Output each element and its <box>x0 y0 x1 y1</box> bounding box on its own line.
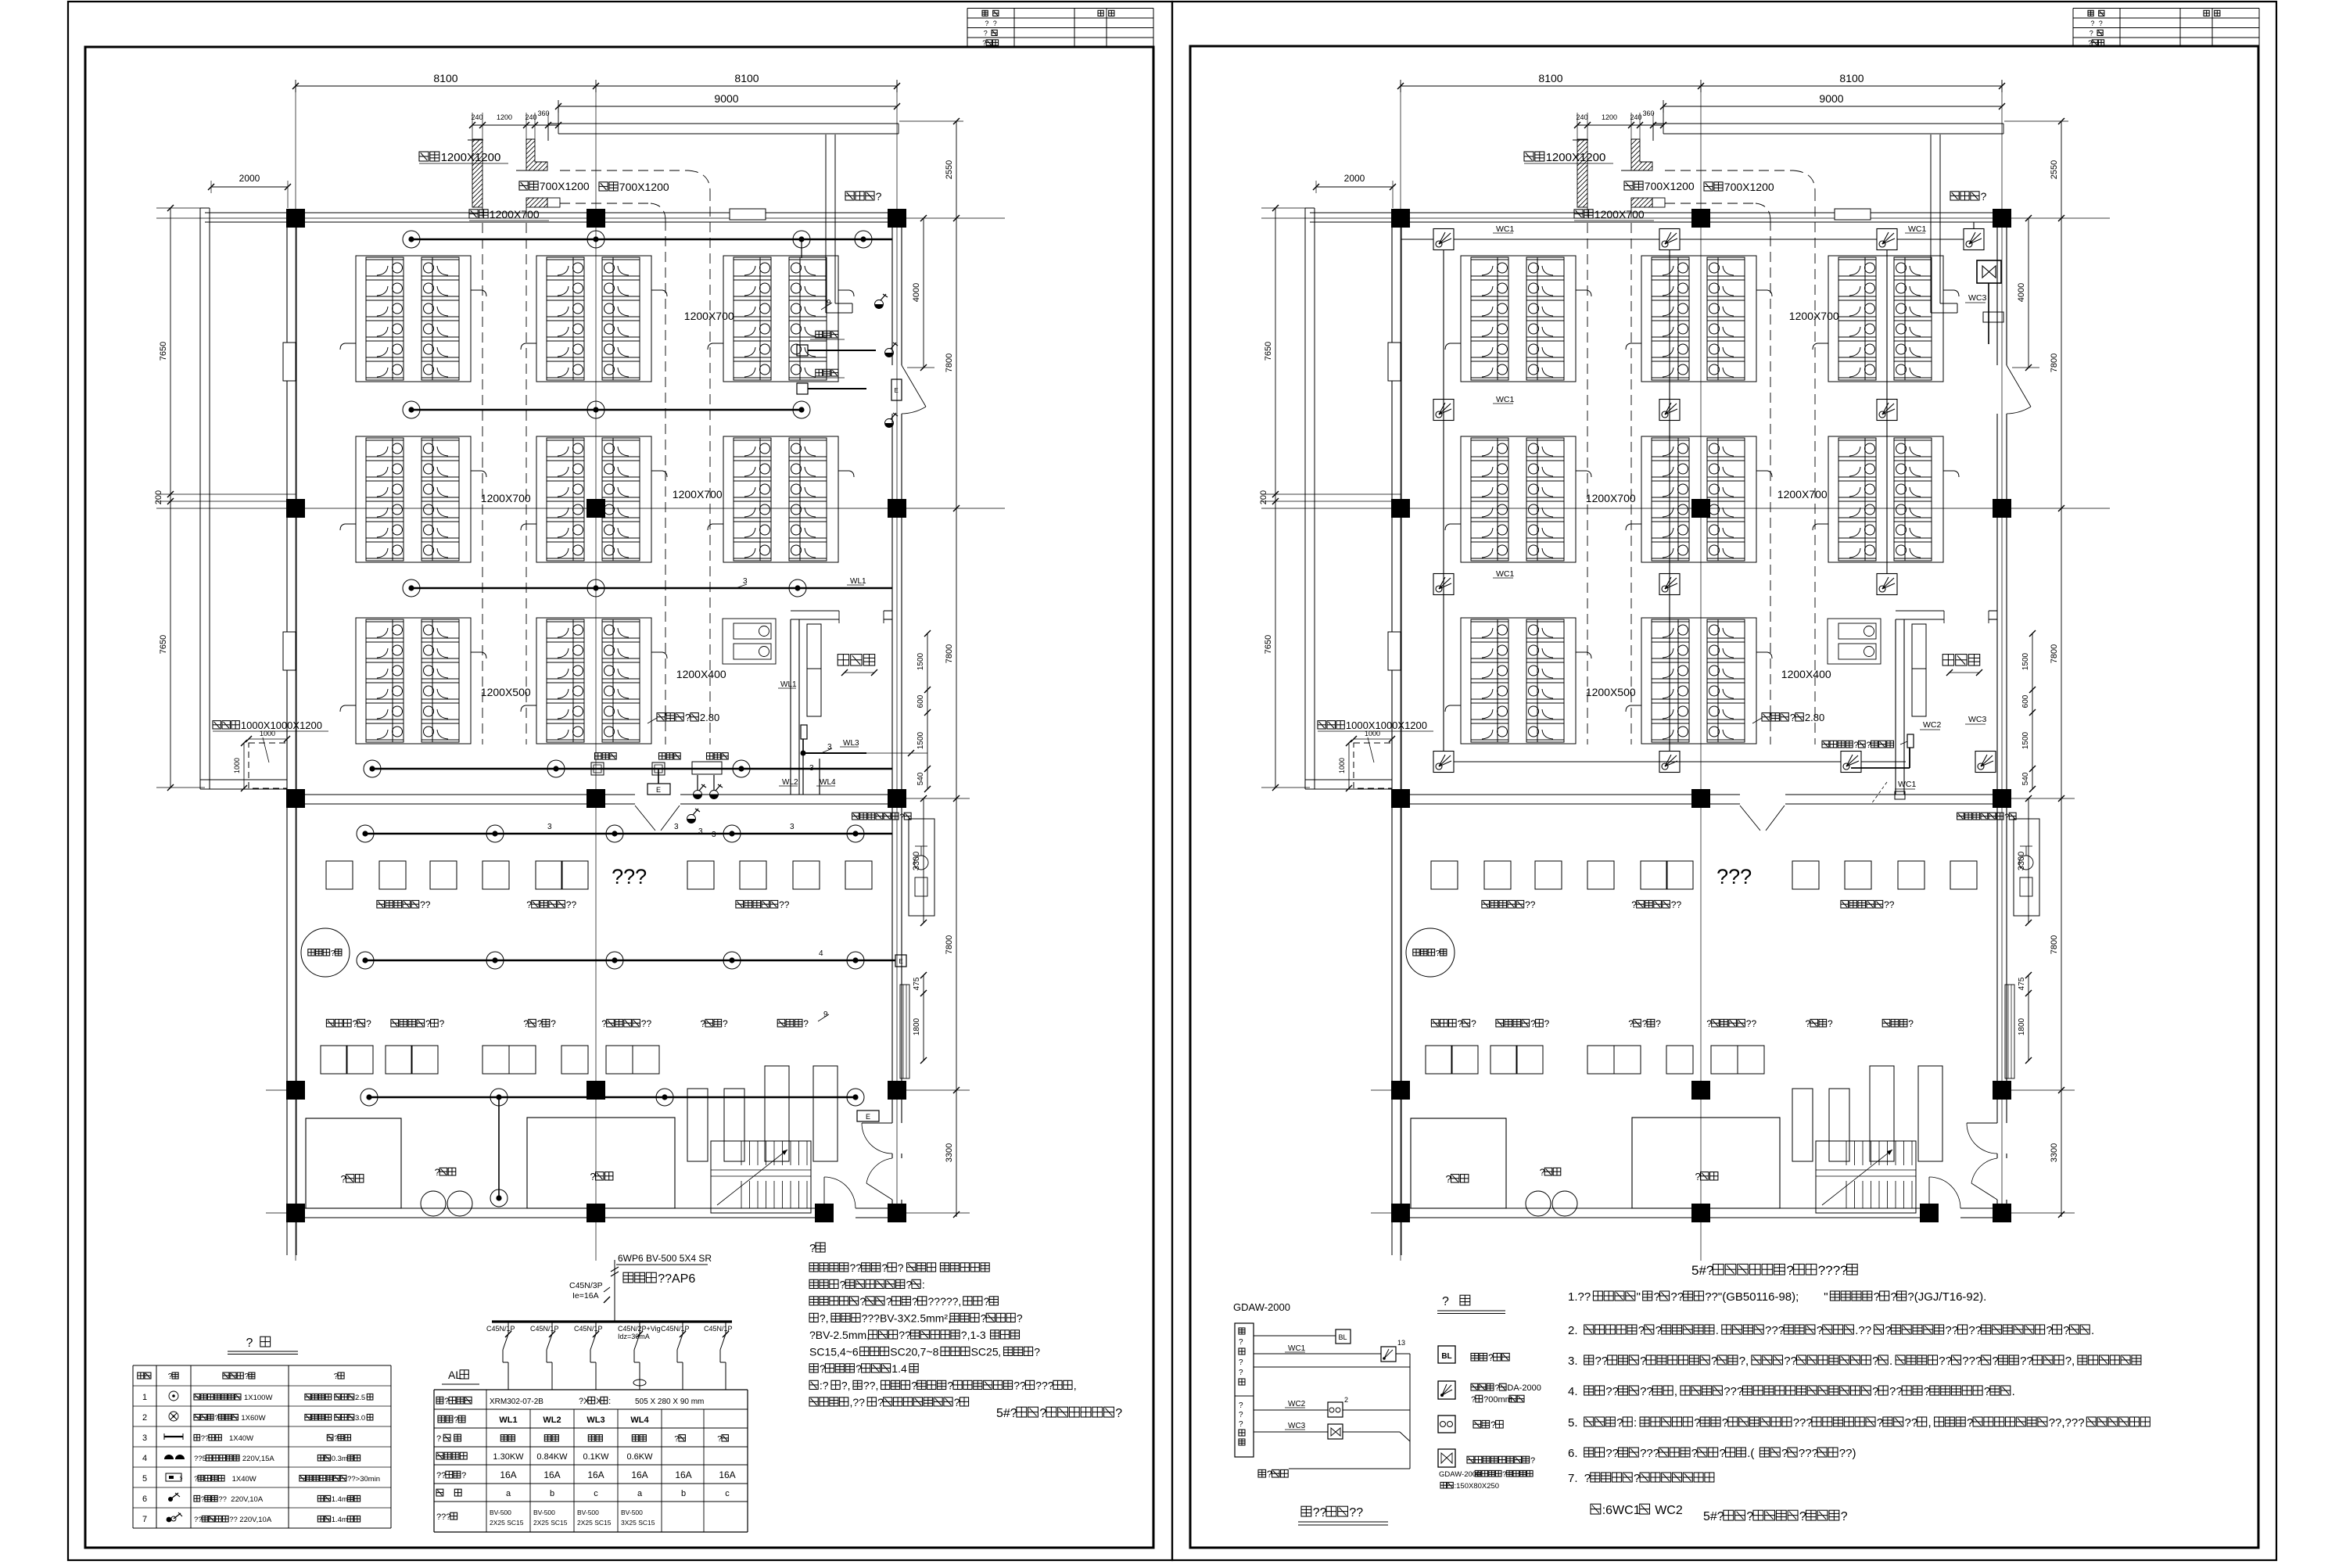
svg-text:?: ? <box>1628 1018 1634 1029</box>
svg-text:540: 540 <box>2021 772 2030 785</box>
svg-text:2X25 SC15: 2X25 SC15 <box>577 1519 612 1527</box>
svg-text:C45N/2P+Vig: C45N/2P+Vig <box>618 1325 661 1333</box>
left sheet inner border <box>85 47 1153 1548</box>
junction box row D <box>591 762 604 775</box>
svg-text:505 X 280 X 90 mm: 505 X 280 X 90 mm <box>635 1398 704 1406</box>
svg-text:3: 3 <box>674 823 679 831</box>
svg-text:??: ?? <box>1349 1506 1363 1520</box>
svg-text:WL4: WL4 <box>630 1416 649 1425</box>
gas shutoff valve box <box>1977 260 2001 283</box>
AL table <box>434 1389 748 1390</box>
svg-text:WC2: WC2 <box>1288 1400 1306 1408</box>
bottom wall <box>287 1207 824 1209</box>
label 隔爆盒 3 <box>707 753 713 759</box>
svg-text:SC15,4~6: SC15,4~6 <box>809 1346 859 1358</box>
svg-text:2.5: 2.5 <box>355 1394 365 1402</box>
east wall upper <box>1996 222 1998 365</box>
svg-text:240: 240 <box>471 113 482 121</box>
svg-text:,: , <box>1674 1385 1677 1398</box>
gas detector WC box <box>1433 574 1454 595</box>
west lean-to wall <box>199 208 201 789</box>
svg-text:?: ? <box>1634 1472 1640 1485</box>
svg-text:1X60W: 1X60W <box>241 1414 265 1423</box>
AL outgoing line <box>802 739 804 753</box>
light row F <box>606 952 623 969</box>
dashed flue main 2 <box>1665 203 1756 204</box>
svg-text:WC1: WC1 <box>1288 1344 1306 1353</box>
svg-text:1.4m: 1.4m <box>332 1516 348 1524</box>
svg-text:WL3: WL3 <box>843 739 859 748</box>
flue connector stubs <box>471 652 486 658</box>
svg-text:??: ?? <box>1013 1380 1026 1392</box>
stair arrow <box>1822 1150 1892 1205</box>
svg-text:?: ? <box>1872 1385 1878 1398</box>
svg-text:": " <box>1824 1290 1828 1304</box>
column <box>1993 789 2011 808</box>
light row D <box>364 760 381 777</box>
svg-text:0.84KW: 0.84KW <box>536 1452 568 1462</box>
svg-text:1200X700: 1200X700 <box>1594 208 1645 221</box>
svg-text:??: ?? <box>1905 1416 1918 1430</box>
svg-text:??AP6: ??AP6 <box>658 1272 695 1286</box>
right outer dim chain <box>956 121 957 1217</box>
svg-text:2000: 2000 <box>239 173 260 184</box>
svg-text:???BV-3X2.5mm²,: ???BV-3X2.5mm², <box>862 1312 951 1325</box>
flue connector stubs <box>1943 471 1959 477</box>
E box east wall <box>891 379 902 400</box>
softener circles <box>1526 1191 1551 1216</box>
svg-text:?: ? <box>341 1173 346 1185</box>
label 采暖二次水除?器 <box>852 813 859 820</box>
boiler group (burner battery) at 925,558 <box>1813 436 1959 562</box>
svg-text:1000X1000X1200: 1000X1000X1200 <box>241 719 322 731</box>
light row G <box>847 1089 864 1106</box>
svg-text:??: ?? <box>1889 1385 1903 1398</box>
column <box>1391 1081 1410 1100</box>
dashed flue vertical 3 <box>1587 207 1588 745</box>
svg-text:4: 4 <box>142 1454 147 1463</box>
light circuit row F wire <box>365 960 895 961</box>
boiler group (burner battery) at 455,327 <box>340 256 486 382</box>
svg-text:WL1: WL1 <box>850 577 866 586</box>
svg-text:?: ? <box>1530 1018 1536 1029</box>
svg-text:??: ?? <box>641 1018 652 1029</box>
svg-text:XRM302-07-2B: XRM302-07-2B <box>490 1398 543 1406</box>
svg-text:E: E <box>866 1113 870 1121</box>
title block texts <box>982 10 988 16</box>
svg-text:4000: 4000 <box>2017 283 2026 302</box>
svg-text:?: ? <box>1992 1355 1998 1368</box>
svg-text:?: ? <box>1442 1295 1449 1308</box>
column <box>586 209 605 228</box>
grid axis row 4 stub <box>902 1089 970 1091</box>
pump row1 label 3 <box>1841 900 1849 908</box>
column <box>1691 499 1710 518</box>
junction box row D 2 <box>652 762 665 775</box>
flue connector stubs <box>838 471 854 477</box>
svg-text:1200X500: 1200X500 <box>1586 686 1636 698</box>
svg-text:1500: 1500 <box>917 731 925 749</box>
row D wire <box>1454 761 1841 762</box>
svg-text:475: 475 <box>2018 977 2026 990</box>
svg-text:16A: 16A <box>587 1469 604 1480</box>
svg-text:???: ??? <box>1035 1380 1054 1392</box>
light at softener <box>490 1189 508 1207</box>
svg-text:?: ? <box>1841 1510 1848 1523</box>
svg-text:?: ? <box>1967 1416 1973 1430</box>
svg-text:?: ? <box>1488 1352 1494 1363</box>
svg-text:2: 2 <box>142 1413 147 1423</box>
left dim chain 7650/200/7650 <box>1275 208 1276 788</box>
AL bus bar <box>492 1320 732 1322</box>
svg-text:360: 360 <box>537 109 549 117</box>
svg-text:?: ? <box>1867 741 1871 750</box>
boiler group (burner battery) at 925,558 <box>708 436 854 562</box>
svg-text:1800: 1800 <box>913 1017 921 1035</box>
svg-text:?: ? <box>1530 1456 1535 1466</box>
notes line 9 <box>809 1398 818 1406</box>
svg-text:?: ? <box>982 39 986 47</box>
svg-text:??: ?? <box>1945 1324 1958 1337</box>
svg-text:200: 200 <box>154 490 163 504</box>
svg-text:1000: 1000 <box>1338 758 1346 773</box>
column <box>1920 1204 1939 1222</box>
right inner dim chain 4000 <box>923 218 924 368</box>
svg-text:1000X1000X1200: 1000X1000X1200 <box>1346 719 1427 731</box>
svg-text:?: ? <box>590 1171 596 1182</box>
svg-text:?: ? <box>723 1018 728 1029</box>
svg-text:?: ? <box>1885 1324 1891 1337</box>
E box bottom door <box>857 1111 879 1121</box>
column <box>1691 1204 1710 1222</box>
svg-text:1.4: 1.4 <box>891 1362 907 1375</box>
svg-text:3: 3 <box>698 827 703 836</box>
svg-text:?: ? <box>856 1362 862 1375</box>
svg-text:220V,10A: 220V,10A <box>239 1516 272 1524</box>
svg-text:.(: .( <box>1747 1447 1754 1460</box>
column <box>1391 209 1410 228</box>
svg-text:2.: 2. <box>1568 1324 1578 1337</box>
svg-text:700X1200: 700X1200 <box>540 180 590 192</box>
svg-text:6WP6 BV-500 5X4 SR: 6WP6 BV-500 5X4 SR <box>618 1253 712 1264</box>
svg-text:7800: 7800 <box>945 353 954 372</box>
svg-text:??5: ??5 <box>194 1455 206 1463</box>
west wall <box>286 213 288 1218</box>
svg-text:?: ? <box>1806 1018 1811 1029</box>
svg-text:??: ?? <box>420 899 431 910</box>
right inner dims 475/1800 <box>923 975 924 1060</box>
sump pit 集水坑 <box>1354 743 1392 788</box>
lamp drops <box>697 775 698 791</box>
svg-text:700X1200: 700X1200 <box>619 181 669 193</box>
radiator east wall <box>900 985 909 1078</box>
gas detector WC box <box>1841 752 1861 773</box>
gas detector WC box <box>1964 229 1984 250</box>
column <box>1691 1081 1710 1100</box>
dashed flue main 1 <box>1665 170 1793 171</box>
svg-text:.: . <box>2012 1385 2015 1398</box>
AL table row4 <box>436 1452 443 1459</box>
svg-text:??: ?? <box>1605 1385 1619 1398</box>
svg-text:SC25: SC25 <box>971 1346 999 1358</box>
svg-text:2.80: 2.80 <box>1805 712 1824 723</box>
label 烟道1200X1200 <box>419 152 429 161</box>
control box feed <box>1909 748 1910 768</box>
left dim chain 7650/200/7650 <box>170 208 171 788</box>
east wall lower piers <box>891 1098 893 1123</box>
svg-text:600: 600 <box>2021 694 2030 708</box>
svg-text:WC1: WC1 <box>1496 224 1514 234</box>
svg-text:?: ? <box>1239 1420 1243 1429</box>
pump row1 label 3 <box>736 900 744 908</box>
svg-text:1X40W: 1X40W <box>232 1475 256 1484</box>
svg-text:5#?: 5#? <box>996 1407 1017 1420</box>
boiler group (burner battery) at 686,327 <box>521 256 667 382</box>
svg-text:?: ? <box>1239 1338 1243 1347</box>
gas detector WC box <box>1877 574 1897 595</box>
svg-text:,: , <box>1074 1380 1077 1392</box>
svg-text:?: ? <box>1039 1407 1046 1420</box>
detector column wire C <box>1886 249 1888 574</box>
svg-text:a: a <box>637 1489 643 1498</box>
svg-text:WC1: WC1 <box>1496 569 1514 579</box>
notes line 3 <box>809 1297 818 1305</box>
column <box>1993 499 2011 518</box>
svg-text:7800: 7800 <box>945 935 954 954</box>
svg-text:7650: 7650 <box>159 342 168 361</box>
grid axis row 2 <box>156 508 1005 509</box>
svg-text:,: , <box>998 1346 1001 1358</box>
svg-text:16A: 16A <box>500 1469 516 1480</box>
label 烟道700X1200 <box>1624 181 1633 190</box>
AL node dot <box>801 751 806 756</box>
gas detector WC box <box>1433 229 1454 250</box>
row3 partition wall <box>1392 794 1740 795</box>
top wall <box>1310 212 2007 213</box>
east wall upper <box>891 222 893 365</box>
svg-text:?: ? <box>2090 30 2093 38</box>
label 隔爆盒 1 <box>595 753 601 759</box>
east wall mid <box>1996 414 1998 1098</box>
notes line 1 <box>809 1263 818 1272</box>
svg-text:WL4: WL4 <box>820 778 836 787</box>
svg-text:3.: 3. <box>1568 1355 1578 1368</box>
svg-text:1200X500: 1200X500 <box>481 686 531 698</box>
column <box>286 1204 305 1222</box>
plate heat exchangers <box>687 1089 708 1161</box>
svg-text:8100: 8100 <box>1538 72 1562 84</box>
svg-text:?: ? <box>1239 1401 1243 1410</box>
column <box>888 789 906 808</box>
right sheet outer border <box>1172 2 2276 1560</box>
label 烟道700X1200 <box>519 181 528 190</box>
east door upper <box>902 365 926 407</box>
water tank 2 <box>527 1118 675 1208</box>
svg-text:Idz=30mA: Idz=30mA <box>618 1333 650 1340</box>
svg-text:1200X700: 1200X700 <box>1789 310 1839 322</box>
svg-text:??): ??) <box>1839 1447 1856 1460</box>
column <box>1993 209 2011 228</box>
explosion box east 2 <box>797 383 808 394</box>
svg-text:?: ? <box>1267 1469 1272 1480</box>
svg-text:?: ? <box>906 1279 913 1291</box>
svg-text:1.??: 1.?? <box>1568 1290 1591 1304</box>
svg-text:E: E <box>656 786 661 794</box>
column <box>286 1081 305 1100</box>
svg-text:1X100W: 1X100W <box>244 1394 272 1402</box>
grid axis row 5 stub <box>902 1212 970 1214</box>
svg-text:?,: ?, <box>1739 1355 1749 1368</box>
control room top wall <box>1896 610 1944 612</box>
svg-text:?: ? <box>1691 1447 1698 1460</box>
svg-text:16A: 16A <box>719 1469 735 1480</box>
svg-text:?: ? <box>1891 1290 1897 1304</box>
legend table frame <box>133 1365 391 1366</box>
plate heat exchangers <box>1792 1089 1813 1161</box>
feeder label 引至配??AP6 <box>623 1272 633 1283</box>
svg-text:?: ? <box>717 1434 722 1444</box>
svg-text:WC1: WC1 <box>1908 224 1926 234</box>
svg-text:?: ? <box>1799 1510 1806 1523</box>
boiler group (burner battery) at 686,327 <box>1626 256 1772 382</box>
window on west wall 2 <box>1388 632 1401 670</box>
row3 door leaves <box>635 806 655 831</box>
除污器 strainer unit <box>909 819 934 916</box>
light row G <box>490 1089 508 1106</box>
svg-text:.: . <box>1716 1324 1719 1337</box>
light row D <box>547 760 565 777</box>
svg-text:?: ? <box>194 1475 198 1484</box>
svg-text:?: ? <box>1436 949 1440 958</box>
svg-text:c: c <box>725 1489 730 1498</box>
svg-text:5: 5 <box>142 1474 147 1484</box>
pump row 2 bases <box>321 1046 347 1074</box>
svg-text:700X1200: 700X1200 <box>1724 181 1774 193</box>
svg-text:,: , <box>1928 1416 1932 1430</box>
switch below wall <box>687 819 696 823</box>
grid axis line B (x=762) <box>595 84 597 1261</box>
light circuit row D wire <box>372 768 892 770</box>
svg-text:b: b <box>550 1489 554 1498</box>
svg-text:?: ? <box>981 1312 987 1325</box>
svg-text:??: ?? <box>201 1434 210 1443</box>
flue connector stubs <box>1756 290 1772 296</box>
grid axis row 4 stub <box>2007 1089 2075 1091</box>
svg-text:?: ? <box>1781 1447 1788 1460</box>
dashed leader <box>1871 782 1887 804</box>
light row B <box>403 401 420 418</box>
right outer dim chain <box>2061 121 2062 1217</box>
light row F <box>486 952 504 969</box>
svg-text:???: ??? <box>612 865 647 888</box>
svg-text:2: 2 <box>1344 1396 1348 1404</box>
grid axis row 5 stub <box>2007 1212 2075 1214</box>
svg-text:C45N/3P: C45N/3P <box>569 1281 603 1290</box>
east door upper <box>2007 365 2031 407</box>
svg-text:3: 3 <box>790 823 795 831</box>
grid axis line B (x=762) <box>1700 84 1702 1261</box>
column <box>1691 789 1710 808</box>
svg-text:BV-500: BV-500 <box>577 1509 599 1516</box>
dim 2000 <box>1316 186 1393 188</box>
light circuit row B wire <box>411 409 802 411</box>
svg-text:?: ? <box>439 1018 445 1029</box>
svg-text:?: ? <box>993 20 997 27</box>
dashed flue vertical 1 <box>1814 191 1816 745</box>
label 烟道底?高2.80 <box>1762 713 1770 721</box>
light row A <box>403 231 420 248</box>
AL cabinet <box>1912 624 1926 716</box>
svg-text:3X25 SC15: 3X25 SC15 <box>621 1519 655 1527</box>
svg-text:?: ? <box>1115 1407 1122 1420</box>
svg-text:220V,15A: 220V,15A <box>242 1455 275 1463</box>
svg-text:7800: 7800 <box>2050 644 2059 663</box>
duct top line <box>468 139 483 141</box>
svg-text:?: ? <box>1706 1018 1712 1029</box>
svg-text:?: ? <box>1584 1472 1591 1485</box>
svg-text:1X40W: 1X40W <box>229 1434 253 1443</box>
svg-text:.: . <box>1889 1355 1892 1368</box>
svg-text:?: ? <box>1502 1470 1506 1479</box>
column <box>586 499 605 518</box>
svg-text:??: ?? <box>218 1495 227 1504</box>
svg-text:1200X700: 1200X700 <box>481 492 531 504</box>
svg-text:540: 540 <box>917 772 925 785</box>
explosion box east 1 <box>797 345 808 356</box>
svg-text::: : <box>1634 1416 1637 1430</box>
svg-text:??: ?? <box>229 1516 238 1524</box>
flue duct hatched low <box>1631 198 1652 207</box>
right inner dim chain 3300 <box>2028 798 2029 923</box>
pump row1 label 1 <box>377 900 385 908</box>
svg-text:??: ?? <box>1939 1355 1952 1368</box>
svg-text:3300: 3300 <box>2050 1143 2059 1162</box>
dashed flue vertical 2 <box>665 221 666 745</box>
dashed flue vertical 4 <box>526 207 527 745</box>
flue connector stubs <box>471 290 486 296</box>
detector column wire B <box>1669 249 1670 752</box>
gas meter chase walls <box>1930 135 1932 313</box>
svg-text:??: ?? <box>779 899 790 910</box>
svg-text:BL: BL <box>1338 1333 1347 1341</box>
svg-text:?: ? <box>1722 1416 1728 1430</box>
svg-text:7650: 7650 <box>1264 635 1273 654</box>
svg-text:8100: 8100 <box>433 72 457 84</box>
svg-text:WC2: WC2 <box>1923 720 1941 730</box>
pump row 2 bases <box>1426 1046 1452 1074</box>
svg-text:?: ? <box>809 1242 816 1255</box>
column <box>286 209 305 228</box>
column <box>586 1204 605 1222</box>
svg-text:?: ? <box>1239 1358 1243 1367</box>
grid axis line A (x=378) <box>295 84 296 1261</box>
column <box>586 789 605 808</box>
control room dim chain 1500/600/1500/540 <box>927 633 928 789</box>
light row C <box>789 579 806 597</box>
svg-text:?: ? <box>2046 1324 2052 1337</box>
svg-text:?: ? <box>803 1018 809 1029</box>
svg-text:?: ? <box>701 1018 706 1029</box>
svg-text:?,1-3: ?,1-3 <box>961 1329 986 1341</box>
svg-text:1500: 1500 <box>2021 652 2030 670</box>
left sheet outer border <box>68 2 1172 1560</box>
gas detector WC box <box>1659 229 1680 250</box>
label 烟道1200X1200 <box>1524 152 1534 161</box>
small boiler group 1200X400 <box>723 619 776 664</box>
svg-text:16A: 16A <box>543 1469 560 1480</box>
svg-text:1200: 1200 <box>1602 113 1617 121</box>
riser to below <box>802 753 804 795</box>
